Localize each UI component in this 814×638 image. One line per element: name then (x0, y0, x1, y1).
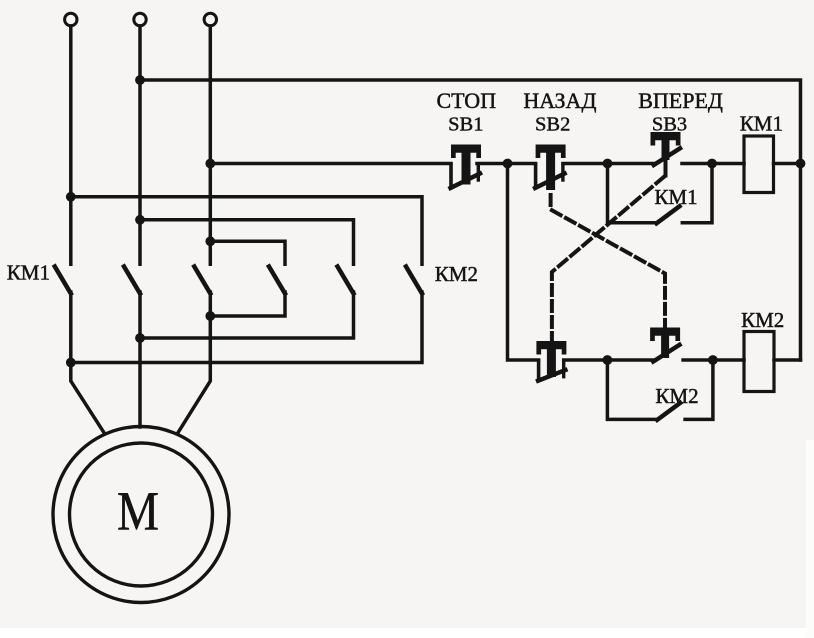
node motor lead 3 junction (205, 311, 215, 321)
node right rail KM1 junction (796, 159, 806, 169)
wire KM1 coil to right rail (774, 162, 801, 166)
wire KM2 pole C bottom to motor lead 1 (71, 292, 422, 363)
svg-text:СТОП: СТОП (436, 88, 496, 113)
svg-text:НАЗАД: НАЗАД (523, 88, 596, 113)
terminal L3 (204, 13, 216, 25)
coil KM1 (744, 136, 774, 193)
wire L1 tap to KM2 pole C top (71, 197, 422, 264)
mechanical link SB3 to lower contact (dashed) (664, 159, 668, 176)
wire branch down to reverse rung (508, 164, 539, 361)
contactor KM1 main contact pole 2 (124, 267, 140, 294)
wire KM2 pole A bottom to motor lead 3 (210, 292, 285, 316)
wire KM2 pole B bottom to motor lead 2 (140, 292, 354, 338)
coil KM2 (744, 332, 774, 392)
motor M outer circle (53, 427, 229, 603)
svg-text:КМ2: КМ2 (741, 308, 784, 332)
svg-text:КМ2: КМ2 (435, 262, 478, 286)
node KM1 aux right junction (707, 159, 717, 169)
svg-text:ВПЕРЕД: ВПЕРЕД (638, 88, 723, 113)
wire SB3 to KM1 coil (682, 162, 744, 166)
mechanical link SB2 to lower contact (dashed) (551, 194, 665, 326)
wire motor lead 2 below KM1 pole 2 (138, 292, 142, 427)
node KM1 aux left junction (603, 159, 613, 169)
node L3 to control rung junction (205, 159, 215, 169)
node L1 tap junction (66, 192, 76, 202)
contactor KM2 auxiliary contact (seal-in) (607, 360, 713, 420)
terminal L1 (65, 13, 77, 25)
node L2 to rail junction (135, 75, 145, 85)
contactor KM2 main contact pole B (338, 267, 354, 294)
contactor KM1 main contact pole 1 (55, 267, 71, 294)
svg-text:SB3: SB3 (652, 114, 687, 136)
wire control rung from L3 to SB1 (210, 162, 451, 166)
svg-text:КМ1: КМ1 (7, 260, 50, 284)
node KM2 aux left junction (603, 355, 613, 365)
node L3 tap junction (205, 236, 215, 246)
svg-text:SB1: SB1 (448, 114, 483, 136)
node KM2 aux right junction (708, 355, 718, 365)
pushbutton SB1 STOP contact (451, 145, 482, 189)
contactor KM2 main contact pole A (269, 267, 285, 294)
wire SB2 to SB3 (563, 162, 654, 166)
pushbutton SB2 BACK (NO contact in KM2 rung) (536, 341, 566, 381)
contactor KM2 main contact pole C (406, 267, 422, 294)
wire motor lead 1 below KM1 pole 1 (71, 292, 105, 434)
node rung branch junction (503, 159, 513, 169)
svg-text:КМ1: КМ1 (654, 185, 697, 209)
node L2 tap junction (135, 215, 145, 225)
wire to SB3 NC contact (564, 358, 654, 362)
wire phase L1 vertical (69, 26, 73, 264)
motor M inner circle (70, 443, 213, 586)
terminal L2 (134, 13, 146, 25)
node motor lead 1 junction (66, 358, 76, 368)
wire phase L2 vertical (138, 26, 142, 264)
wire L3 tap to KM2 pole A top (210, 241, 285, 264)
wire motor lead 3 below KM1 pole 3 (178, 292, 211, 434)
wire KM2 coil to right rail (774, 358, 801, 362)
svg-text:КМ2: КМ2 (655, 384, 698, 408)
contactor KM1 auxiliary contact (seal-in around SB3) (608, 164, 713, 224)
wire phase L3 vertical (209, 26, 213, 264)
pushbutton SB3 FORWARD (NO contact) (651, 132, 681, 165)
svg-text:SB2: SB2 (535, 114, 570, 136)
svg-text:КМ1: КМ1 (740, 112, 783, 136)
svg-text:М: М (117, 481, 159, 542)
wire SB3 NC to KM2 coil (683, 358, 744, 362)
contactor KM1 main contact pole 3 (194, 267, 210, 294)
node motor lead 2 junction (135, 333, 145, 343)
wire L2 tap to KM2 pole B top (140, 220, 354, 264)
wire top control rail from L2 to right side (140, 80, 801, 360)
pushbutton SB2 BACK (NC contact in KM1 rung) (535, 145, 566, 191)
pushbutton SB3 FORWARD (NC interlock contact in KM2 rung) (650, 328, 680, 362)
wire SB1 to SB2 (477, 162, 536, 166)
